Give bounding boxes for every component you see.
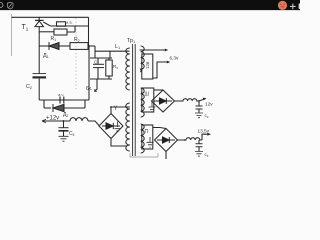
svg-text:C5: C5	[69, 131, 75, 137]
diode bridge B3	[155, 129, 178, 152]
LC tank box	[90, 58, 118, 79]
diode bridge B2	[152, 90, 175, 112]
top bar icons	[0, 1, 302, 10]
wire bus right vertical	[88, 17, 90, 46]
choke input coil	[70, 118, 88, 121]
svg-text:6,3v: 6,3v	[170, 56, 180, 61]
svg-text:C2: C2	[26, 84, 32, 90]
svg-text:T1: T1	[22, 24, 29, 32]
small ground mark inside	[115, 122, 121, 132]
diode D2 loop	[44, 100, 85, 112]
svg-text:L1: L1	[115, 44, 120, 50]
wire tap down	[109, 51, 111, 58]
junction dot	[63, 120, 65, 122]
wire W2 to bridge B2	[154, 89, 163, 91]
winding box W2	[142, 88, 154, 112]
wire to bridge	[88, 121, 99, 126]
frame top border	[12, 16, 89, 18]
winding box W1	[142, 54, 153, 79]
core bottom bracket	[130, 153, 158, 157]
svg-text:+12v: +12v	[46, 116, 59, 122]
svg-text:R3: R3	[113, 64, 118, 70]
+12v input terminal	[42, 119, 46, 123]
toolbar shield icon	[7, 2, 13, 9]
secondary winding W3	[141, 124, 145, 153]
capacitor C5	[59, 121, 69, 141]
junction dot	[184, 139, 186, 141]
svg-text:а,ч: а,ч	[58, 92, 63, 97]
ground under B2	[149, 102, 156, 112]
svg-text:R1: R1	[51, 36, 57, 42]
wire bus lower vertical	[88, 46, 90, 100]
wire 6K lead	[95, 79, 98, 92]
toolbar plus icon	[290, 4, 296, 10]
resistor R3	[108, 58, 110, 60]
svg-text:13,5v: 13,5v	[198, 129, 210, 134]
svg-text:R2: R2	[74, 37, 80, 43]
svg-text:Тр1: Тр1	[127, 38, 135, 44]
toolbar left partial reload icon	[0, 2, 3, 7]
resistor small upper	[57, 22, 66, 26]
svg-text:Д1: Д1	[43, 53, 49, 59]
wire parallel branch	[39, 31, 54, 33]
resistor R2	[70, 43, 88, 50]
winding box W3	[142, 125, 153, 149]
toolbar avatar orange circle	[278, 1, 287, 10]
arrow 13.5v	[202, 134, 208, 140]
choke output 12v	[175, 99, 200, 101]
svg-text:c3: c3	[205, 113, 209, 119]
svg-text:12в: 12в	[145, 61, 150, 69]
diode bridge B1	[99, 114, 123, 139]
arrow 12v	[199, 99, 204, 101]
wire line B	[39, 99, 89, 101]
junction dot tap	[110, 106, 112, 108]
capacitor C2	[33, 46, 47, 100]
wire line A	[39, 45, 49, 47]
diode D1	[49, 42, 70, 50]
wire line A right	[88, 45, 95, 47]
dashed boundary line	[75, 18, 77, 90]
wire gate line	[51, 25, 89, 27]
wire branch right	[67, 26, 75, 32]
toolbar right edge icon sliver	[299, 3, 302, 9]
junction dot line A	[88, 45, 90, 47]
resistor R1	[54, 29, 67, 35]
wire bridge bottom	[111, 139, 127, 147]
thyristor T1	[35, 17, 51, 46]
wire line to primary	[95, 50, 130, 52]
wire junction vertical	[94, 46, 96, 58]
svg-text:C: C	[94, 60, 98, 65]
svg-text:П: П	[145, 129, 149, 135]
transformer core	[133, 44, 136, 156]
capacitor C	[97, 58, 99, 64]
svg-text:12v: 12v	[205, 102, 213, 107]
wire bridge top to tap	[111, 107, 130, 114]
secondary winding W2	[141, 88, 145, 117]
primary winding L1	[126, 48, 130, 151]
frame left border	[11, 14, 13, 56]
svg-text:Ш: Ш	[145, 92, 150, 98]
junction dot	[198, 100, 200, 102]
svg-text:Д2: Д2	[63, 112, 68, 118]
svg-text:c4: c4	[205, 152, 209, 158]
svg-text:а.а.: а.а.	[66, 20, 73, 25]
choke output 13.5v	[178, 138, 203, 140]
capacitor C3	[195, 101, 203, 118]
svg-text:6к.: 6к.	[86, 86, 92, 92]
link component on line B	[60, 97, 64, 104]
capacitor C4	[195, 140, 203, 156]
6.3v terminal arrows	[140, 49, 165, 51]
ground under B3	[147, 137, 154, 147]
secondary winding W1	[141, 46, 145, 72]
bridge B3 bottom lead	[165, 152, 167, 160]
wire W3 to bridge B3	[153, 128, 166, 129]
browser top bar	[0, 0, 300, 10]
